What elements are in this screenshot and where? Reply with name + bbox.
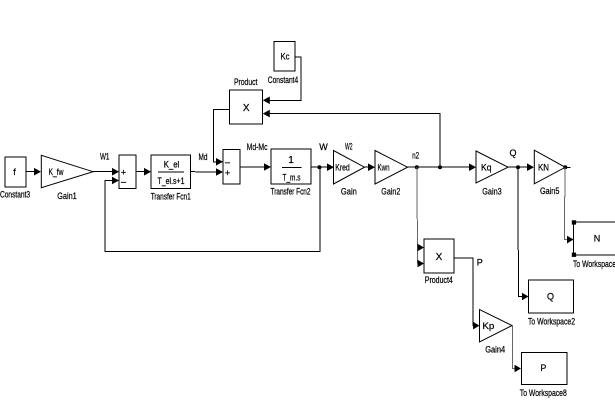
svg-text:Gain1: Gain1 (57, 191, 77, 201)
gain Gain5 (KN) (534, 150, 565, 184)
wire Kred to Gain2 (365, 163, 376, 171)
gain Gain4 (Kp) (480, 310, 513, 343)
gain Gain3 (Kq) (476, 151, 508, 183)
svg-text:W: W (319, 142, 328, 152)
constant block Constant3 (f) (5, 157, 26, 187)
svg-text:n2: n2 (412, 151, 419, 161)
svg-text:Kq: Kq (481, 163, 492, 173)
wire Q tap down to To Workspace2 (518, 167, 529, 300)
to workspace block P (522, 353, 568, 385)
wire feedback W to Sum1 minus (105, 167, 320, 251)
wire Product4 to Gain4 (454, 258, 480, 329)
sum block Sum1 (119, 155, 136, 189)
svg-text:To Workspace2: To Workspace2 (528, 316, 575, 326)
wire Gain4 to To Workspace8 (512, 326, 521, 373)
svg-text:1: 1 (288, 155, 294, 166)
wire Constant4 to Product input 1 (263, 57, 301, 104)
node dot W junction (317, 165, 321, 169)
selection handle top-left of N (572, 220, 576, 224)
svg-text:Md: Md (199, 152, 208, 162)
selection handle bottom-left of N (572, 253, 576, 257)
wire Product output to Sum2 minus (214, 110, 230, 166)
svg-text:Q: Q (509, 148, 516, 158)
sum block Sum2 (223, 150, 240, 185)
svg-text:–: – (225, 157, 230, 167)
svg-text:Transfer Fcn1: Transfer Fcn1 (151, 192, 191, 202)
svg-text:K_fw: K_fw (49, 167, 64, 177)
svg-text:T_el.s+1: T_el.s+1 (158, 176, 185, 186)
svg-text:Transfer Fcn2: Transfer Fcn2 (271, 187, 311, 197)
wire Sum2 to Transfer Fcn2 (240, 163, 271, 171)
wire KN output stub (565, 166, 570, 168)
gain Gain1 (K_fw) (41, 155, 93, 187)
svg-text:Gain3: Gain3 (482, 187, 502, 197)
node dot KN output (563, 165, 567, 169)
transfer function Transfer Fcn2 (1 / T_m.s) (271, 149, 311, 184)
gain Gain (Kred) (334, 151, 365, 185)
svg-text:X: X (436, 252, 443, 263)
svg-text:Kred: Kred (335, 163, 350, 173)
svg-text:To Workspace: To Workspace (573, 259, 615, 269)
svg-text:T_m.s: T_m.s (283, 173, 301, 183)
gain Gain2 (Kwn) (375, 151, 408, 185)
svg-text:P: P (540, 363, 546, 373)
node dot Q (516, 165, 520, 169)
svg-text:N: N (594, 234, 601, 244)
node dot feedback tap (438, 165, 442, 169)
svg-text:P: P (477, 258, 483, 268)
wire f to Gain1 (26, 168, 41, 176)
svg-text:W1: W1 (100, 152, 110, 162)
wire Gain1 to Sum1 (93, 168, 119, 176)
svg-text:–: – (121, 176, 126, 186)
svg-text:W2: W2 (345, 142, 353, 152)
svg-text:Md-Mc: Md-Mc (247, 142, 268, 152)
wire Gain3 to Gain5 (508, 163, 534, 171)
wire Sum1 to Transfer Fcn1 (136, 168, 151, 176)
svg-text:Gain: Gain (341, 187, 357, 197)
to workspace block Q (529, 280, 574, 313)
svg-text:Constant3: Constant3 (0, 189, 30, 199)
wire Transfer Fcn1 to Sum2 (191, 168, 224, 176)
to workspace block N (selected) (574, 222, 615, 255)
wire n2 down to Product4 inputs (417, 167, 424, 267)
svg-text:Gain2: Gain2 (381, 187, 400, 197)
svg-text:Kwn: Kwn (378, 163, 390, 173)
constant block Constant4 (Kc) (274, 42, 295, 72)
wire KN output down to To Workspace (N) (564, 167, 573, 243)
svg-text:X: X (243, 103, 250, 114)
svg-text:K_el: K_el (164, 160, 180, 170)
svg-text:Constant4: Constant4 (268, 75, 299, 85)
wire n2 feedback to Product input 2 (263, 110, 440, 167)
wire Gain2 to Gain3 (408, 163, 477, 171)
svg-text:Kc: Kc (281, 52, 290, 62)
svg-text:Gain5: Gain5 (540, 186, 560, 196)
svg-text:Gain4: Gain4 (485, 345, 505, 355)
svg-text:Product: Product (234, 77, 258, 87)
svg-text:Q: Q (547, 292, 554, 302)
svg-text:+: + (225, 168, 230, 178)
svg-text:Kp: Kp (482, 321, 494, 331)
wire Transfer Fcn2 to Gain (Kred) (311, 163, 334, 171)
svg-text:Product4: Product4 (425, 275, 453, 285)
svg-text:To Workspace8: To Workspace8 (520, 388, 567, 398)
svg-text:KN: KN (538, 163, 549, 173)
product block Product (mirrored) (230, 90, 263, 124)
transfer function Transfer Fcn1 (K_el / T_el.s+1) (151, 155, 191, 189)
node dot n2 (415, 165, 419, 169)
product block Product4 (424, 239, 454, 273)
